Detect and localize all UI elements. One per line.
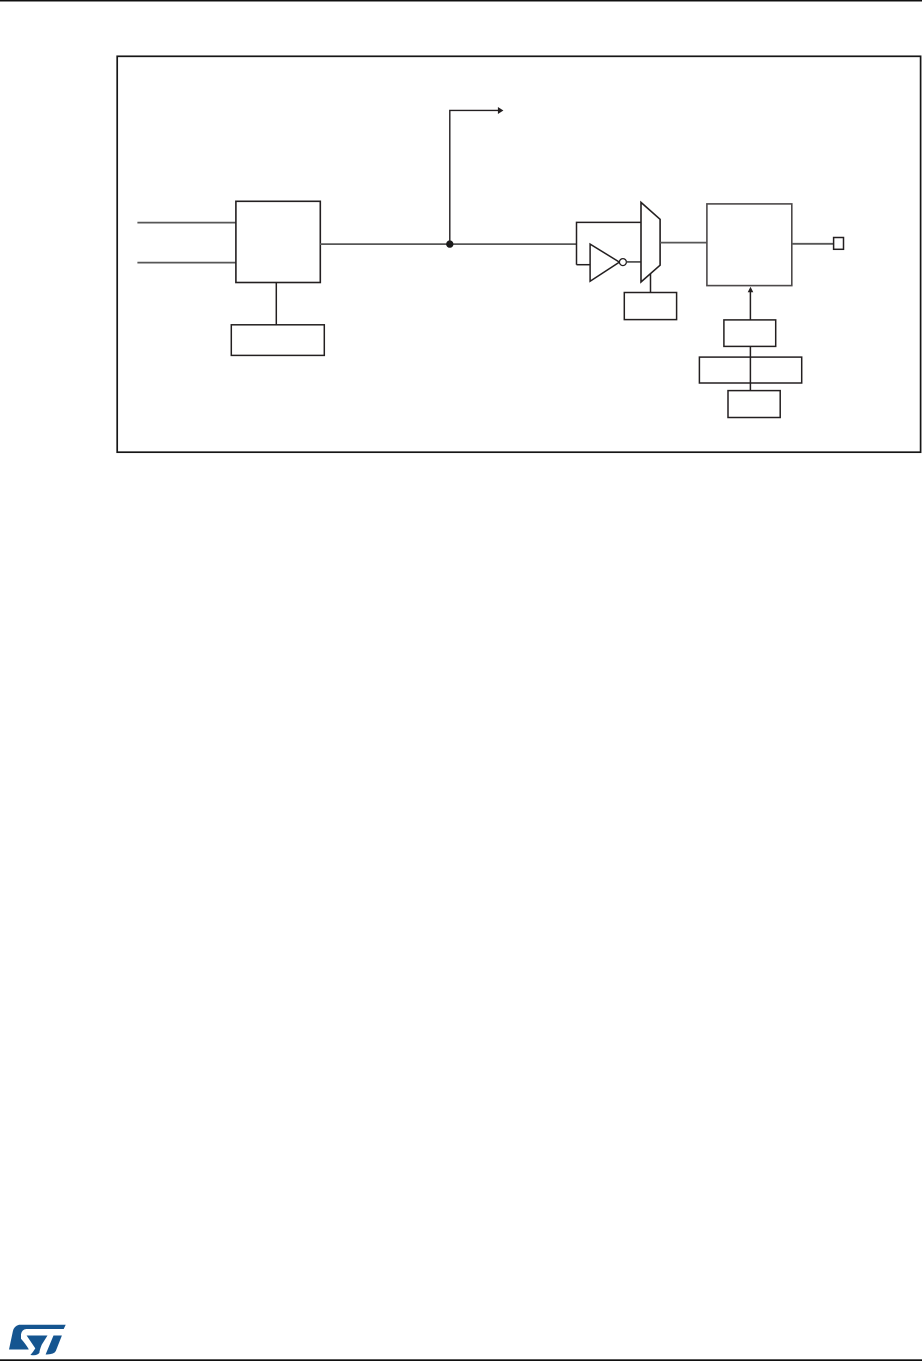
block: right prescaler block (707, 204, 792, 286)
wire: branch up from junction (450, 110, 499, 244)
wire: right block output to pad (792, 243, 834, 245)
arrowhead: branch to system clock (498, 107, 504, 114)
inverter U1 (590, 244, 619, 281)
wire: main horizontal net from left block to bypass section (320, 243, 577, 245)
top header rule (0, 0, 922, 2)
wire: mux output to right block (660, 242, 707, 244)
bottom footer rule (0, 1359, 922, 1361)
wire: mux select stem (650, 274, 652, 293)
wire: inverter output to mux (627, 261, 641, 263)
block: register box 2 (wide) (699, 357, 801, 383)
wire: left block bottom connector (275, 283, 277, 325)
node: junction dot (446, 240, 453, 247)
block: register box 1 (724, 320, 776, 347)
block: register box 3 (728, 391, 780, 418)
wire: input line 2 to left block (137, 262, 236, 264)
inverter output bubble (619, 259, 626, 266)
figure frame (117, 56, 920, 452)
block: left oscillator block (236, 201, 320, 282)
block: left sub box (control register) (231, 325, 324, 356)
mux (641, 202, 660, 282)
wire: bypass path box (left vertical, top edge, bottom stub) (577, 222, 642, 264)
logo: ST Microelectronics (9, 1325, 66, 1355)
arrowhead: control line into right block (748, 287, 754, 292)
wire: vertical control line through register stack (749, 291, 751, 391)
wire: input line 1 to left block (137, 222, 236, 224)
pad: output pin square (834, 238, 844, 250)
block: mux select box (624, 293, 676, 320)
